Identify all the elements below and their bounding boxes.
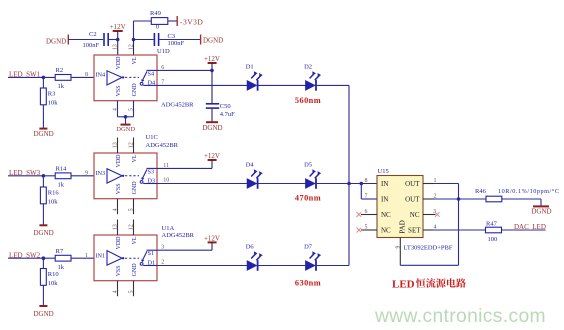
svg-text:+12V: +12V: [204, 234, 220, 242]
ground DGND: [33, 306, 53, 318]
svg-text:+12V: +12V: [204, 55, 220, 63]
wire: [71, 257, 94, 259]
wire: [211, 70, 213, 103]
svg-text:D1: D1: [246, 63, 254, 70]
LED D7: [304, 244, 321, 271]
svg-text:12: 12: [129, 224, 135, 230]
svg-text:D7: D7: [304, 244, 313, 251]
pin number 5: [129, 208, 135, 211]
wire pin 12 VL: [133, 40, 135, 56]
LED D6: [246, 244, 263, 271]
svg-text:S3: S3: [148, 168, 155, 175]
svg-text:VL: VL: [132, 154, 138, 162]
svg-text:D3: D3: [148, 178, 156, 185]
svg-text:12: 12: [129, 44, 135, 50]
pin 3 NC stub: [423, 209, 440, 217]
resistor R16 value 10k: [40, 176, 59, 226]
svg-text:7: 7: [365, 194, 368, 200]
resistor R10 value 10k: [40, 258, 58, 306]
svg-text:100nF: 100nF: [83, 42, 100, 49]
LED D4: [246, 162, 263, 189]
pin 6 wire to +12V: [157, 65, 212, 71]
svg-text:ADG452BR: ADG452BR: [161, 102, 194, 109]
svg-text:R46: R46: [475, 188, 487, 195]
pin names IN IN NC NC OUT OUT NC SET PAD: [381, 180, 421, 235]
node junction: [116, 38, 120, 42]
svg-text:13: 13: [113, 224, 119, 230]
pin 11 wire to +12V: [157, 163, 212, 169]
svg-text:OUT: OUT: [405, 195, 420, 203]
svg-text:U1A: U1A: [162, 225, 175, 232]
svg-text:13: 13: [113, 142, 119, 148]
svg-text:DGND: DGND: [33, 310, 53, 318]
capacitor C3: [154, 33, 184, 47]
svg-text:VDD: VDD: [116, 56, 122, 70]
svg-text:11: 11: [163, 163, 169, 169]
svg-text:3: 3: [433, 209, 436, 215]
svg-text:LED: LED: [392, 279, 415, 291]
ground DGND: [33, 129, 53, 138]
pin 10 wire to LEDs: [157, 178, 306, 184]
wire: [502, 229, 546, 231]
svg-text:SET: SET: [408, 226, 421, 234]
watermark www.cntronics.com: [374, 306, 546, 327]
pin 2 wire to LEDs: [157, 260, 247, 266]
pin number 12: [129, 224, 135, 230]
svg-text:6: 6: [161, 65, 164, 71]
svg-text:1k: 1k: [58, 264, 65, 271]
svg-text:NC: NC: [381, 226, 391, 234]
label U15: [378, 168, 389, 175]
svg-text:1: 1: [85, 253, 88, 259]
svg-text:10R/0.1%/10ppm/°C: 10R/0.1%/10ppm/°C: [498, 188, 560, 195]
svg-text:NC: NC: [410, 211, 420, 219]
buffer triangle: [96, 169, 140, 183]
svg-text:VDD: VDD: [116, 236, 122, 250]
pin 7: [365, 194, 368, 200]
svg-text:IN3: IN3: [96, 170, 106, 177]
wire to R49: [134, 21, 152, 40]
switch S1/D1: [140, 250, 157, 266]
pin number 5: [129, 108, 135, 111]
svg-text:R49: R49: [150, 10, 161, 17]
label U1C: [146, 134, 179, 149]
svg-text:C50: C50: [220, 103, 231, 110]
resistor R46 value 10R/0.1%/10ppm: [475, 188, 560, 202]
pin 4 stub: [117, 281, 119, 297]
svg-text:S1: S1: [148, 250, 155, 257]
pin 4 SET wire: [423, 225, 486, 231]
svg-text:DGND: DGND: [33, 229, 53, 237]
label 560nm: [295, 96, 321, 105]
pin 1 OUT wire: [423, 178, 459, 199]
svg-text:-3V3D: -3V3D: [180, 18, 203, 27]
LED D2: [304, 63, 321, 90]
svg-text:D6: D6: [246, 244, 255, 251]
pin 5 NC stub: [357, 225, 378, 233]
wire to pin 7: [361, 184, 377, 200]
svg-text:470nm: 470nm: [295, 193, 321, 202]
svg-text:1k: 1k: [58, 83, 65, 90]
power +12V: [204, 234, 220, 250]
svg-text:IN: IN: [381, 195, 388, 203]
pin 3 wire to +12V: [157, 245, 212, 251]
resistor R7 value 1k: [55, 248, 71, 271]
label U1A: [162, 225, 195, 239]
wire: [68, 39, 103, 41]
wire: [159, 39, 200, 41]
pin number 5: [129, 290, 135, 293]
node junction: [457, 197, 461, 201]
power port DGND (C3 right): [201, 35, 224, 45]
port LED_SW1: [8, 71, 55, 79]
pin 12 stub: [133, 220, 135, 236]
svg-text:VL: VL: [132, 236, 138, 244]
svg-text:4: 4: [113, 208, 119, 211]
label U1D: [157, 48, 170, 55]
pin number 4: [113, 208, 119, 211]
svg-text:DGND: DGND: [116, 126, 135, 133]
capacitor C50 value 4.7uF: [206, 103, 235, 122]
svg-text:+12V: +12V: [204, 152, 220, 160]
wire LED row3 to trunk: [316, 265, 349, 267]
power +12V (U1D VDD): [110, 23, 126, 40]
wire: [168, 20, 177, 22]
svg-text:12: 12: [129, 142, 135, 148]
switch S4/D4: [140, 70, 157, 86]
pin 13 stub: [117, 138, 119, 154]
pin 2 OUT wire: [423, 194, 486, 200]
pin 8: [365, 178, 368, 184]
svg-text:D4: D4: [148, 79, 156, 86]
svg-text:6: 6: [365, 209, 368, 215]
node junction: [347, 182, 351, 186]
svg-text:PAD: PAD: [399, 220, 407, 233]
pin number 12: [129, 142, 135, 148]
svg-text:D5: D5: [304, 162, 312, 169]
pin labels VDD VL VSS GND: [116, 154, 138, 195]
pin 6 NC stub: [357, 209, 378, 217]
svg-text:0: 0: [156, 24, 159, 31]
wire: [258, 84, 306, 86]
svg-text:+12V: +12V: [110, 23, 126, 31]
label LT3092EDD+PBF: [404, 244, 453, 251]
buffer triangle: [96, 251, 140, 266]
svg-text:D2: D2: [304, 63, 312, 70]
svg-text:5: 5: [365, 225, 368, 231]
svg-text:IN4: IN4: [96, 72, 106, 79]
svg-text:8: 8: [85, 72, 88, 78]
svg-text:IN1: IN1: [96, 252, 106, 259]
svg-text:1k: 1k: [58, 181, 65, 188]
svg-text:D1: D1: [148, 260, 156, 267]
pin number 4: [113, 290, 119, 293]
pin 5 stub: [133, 199, 135, 215]
wire: [71, 76, 94, 78]
wire pin 13 VDD: [117, 40, 119, 56]
wire: [134, 39, 154, 41]
wire: [71, 175, 94, 177]
ground DGND (R46): [531, 206, 551, 215]
svg-text:10k: 10k: [48, 199, 59, 206]
power +12V: [204, 152, 220, 168]
svg-text:R10: R10: [48, 271, 59, 278]
switch S3/D3: [140, 168, 157, 184]
node junction: [42, 174, 46, 178]
svg-text:VSS: VSS: [116, 85, 122, 96]
ground DGND: [33, 225, 53, 237]
power port DGND (C2 left): [46, 35, 68, 46]
wire LED row2 to U15: [316, 183, 377, 185]
LED D1: [246, 63, 263, 90]
regulator U15 LT3092EDD+PBF body: [377, 176, 423, 238]
wire: [258, 265, 306, 267]
pin 8: [85, 72, 88, 78]
svg-text:LT3092EDD+PBF: LT3092EDD+PBF: [404, 244, 453, 251]
node junction: [132, 38, 136, 42]
pin 9: [85, 171, 88, 177]
node junction: [42, 76, 46, 80]
pin 1: [85, 253, 88, 259]
svg-text:8: 8: [365, 178, 368, 184]
svg-text:10k: 10k: [48, 280, 59, 287]
pin number 12: [129, 44, 135, 50]
svg-text:DGND: DGND: [203, 37, 223, 45]
pin labels VDD VL VSS GND: [116, 56, 138, 97]
svg-text:100: 100: [488, 236, 498, 243]
svg-text:5: 5: [129, 290, 135, 293]
pin number 13: [113, 224, 119, 230]
svg-text:D4: D4: [246, 162, 255, 169]
svg-text:R47: R47: [486, 220, 498, 227]
svg-text:630nm: 630nm: [295, 279, 321, 288]
svg-text:R7: R7: [56, 248, 64, 255]
power +12V: [204, 55, 220, 70]
pin 4 stub: [117, 199, 119, 215]
pin 12 stub: [133, 138, 135, 154]
pin labels VDD VL VSS GND: [116, 236, 138, 277]
wire: [502, 199, 541, 206]
svg-text:7: 7: [161, 79, 164, 85]
svg-text:VL: VL: [132, 56, 138, 64]
svg-text:C2: C2: [89, 31, 97, 38]
label ADG452BR (U1D): [161, 102, 194, 109]
svg-text:5: 5: [129, 108, 135, 111]
svg-text:NC: NC: [381, 211, 391, 219]
svg-text:DGND: DGND: [33, 130, 53, 138]
svg-text:560nm: 560nm: [295, 96, 321, 105]
svg-text:10: 10: [163, 178, 169, 184]
port DAC_LED: [514, 223, 546, 231]
svg-text:DAC_LED: DAC_LED: [514, 223, 546, 231]
svg-text:DGND: DGND: [531, 208, 551, 216]
svg-text:VSS: VSS: [116, 265, 122, 276]
resistor R49: [150, 10, 168, 30]
pin 7 wire to LEDs: [157, 79, 247, 85]
svg-text:GND: GND: [132, 181, 138, 195]
svg-text:GND: GND: [132, 83, 138, 97]
svg-text:U15: U15: [378, 168, 389, 175]
svg-text:R3: R3: [48, 91, 56, 98]
op-amp buffer U1D ADG452BR body: [94, 55, 157, 101]
port LED_SW2: [8, 251, 55, 259]
svg-text:VDD: VDD: [116, 154, 122, 168]
wire trunk: [348, 85, 350, 265]
svg-text:4: 4: [113, 290, 119, 293]
label 470nm: [295, 193, 321, 202]
wire: [109, 39, 118, 41]
op-amp buffer U1A ADG452BR body: [94, 235, 157, 281]
pin number 13: [113, 44, 119, 50]
svg-text:GND: GND: [132, 263, 138, 277]
power port -3V3D: [177, 16, 203, 27]
svg-text:VSS: VSS: [116, 183, 122, 194]
resistor R47 value 100: [486, 220, 502, 243]
buffer triangle: [96, 71, 140, 85]
pin 5 stub: [133, 281, 135, 297]
node junction: [42, 256, 46, 260]
wire LED row1 to trunk: [316, 84, 349, 86]
svg-text:4.7uF: 4.7uF: [220, 111, 235, 118]
LED D5: [304, 162, 321, 189]
label 630nm: [295, 279, 321, 288]
svg-text:100nF: 100nF: [168, 40, 185, 47]
title LED constant current source circuit: [392, 278, 466, 290]
port LED_SW3: [8, 169, 55, 177]
svg-text:3: 3: [161, 245, 164, 251]
pin 13 stub: [117, 220, 119, 236]
svg-text:IN: IN: [381, 180, 388, 188]
svg-text:9: 9: [85, 171, 88, 177]
svg-text:13: 13: [113, 44, 119, 50]
svg-text:4: 4: [113, 108, 119, 111]
wire: [258, 183, 306, 185]
svg-text:U1D: U1D: [157, 48, 170, 55]
capacitor C2: [83, 31, 109, 49]
svg-text:DGND: DGND: [46, 38, 66, 46]
resistor R3 value 10k: [40, 77, 58, 128]
svg-text:OUT: OUT: [405, 180, 420, 188]
ground bracket DGND (U1D VSS GND): [116, 101, 135, 133]
svg-text:10k: 10k: [48, 100, 59, 107]
svg-text:DGND: DGND: [202, 124, 222, 132]
node junction: [210, 69, 214, 73]
op-amp buffer U1C ADG452BR body: [94, 153, 157, 199]
node junction: [360, 182, 364, 186]
svg-text:ADG452BR: ADG452BR: [162, 232, 195, 239]
resistor R14 value 1k: [55, 166, 71, 189]
pin 9 PAD wire: [395, 199, 458, 265]
svg-text:www.cntronics.com: www.cntronics.com: [374, 306, 546, 327]
resistor R2 value 1k: [55, 67, 71, 90]
ground DGND (C50): [202, 122, 222, 132]
pin number 4: [113, 108, 119, 111]
svg-text:5: 5: [129, 208, 135, 211]
svg-text:ADG452BR: ADG452BR: [146, 142, 179, 149]
svg-text:R14: R14: [56, 166, 68, 173]
pin number 13: [113, 142, 119, 148]
svg-text:R2: R2: [56, 67, 64, 74]
svg-text:U1C: U1C: [146, 134, 158, 141]
svg-text:2: 2: [161, 260, 164, 266]
svg-text:9: 9: [395, 246, 401, 249]
svg-text:R16: R16: [48, 190, 60, 197]
svg-text:S4: S4: [148, 70, 155, 77]
